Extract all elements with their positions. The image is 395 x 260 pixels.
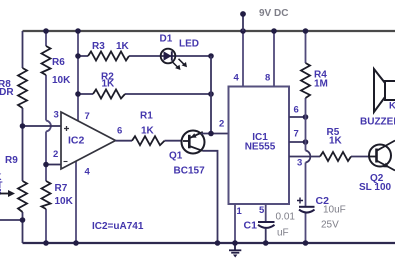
svg-text:3: 3 [0,187,2,197]
node top bus R6 [43,28,49,34]
wire op-amp pin 4 down [75,161,77,243]
svg-text:R6: R6 [52,57,65,68]
node bottom bus pin1/ground [232,240,238,246]
svg-text:BC157: BC157 [174,166,206,177]
buzzer speaker [374,69,385,112]
node pin3 input junction [20,123,26,129]
svg-text:LDR: LDR [0,87,14,98]
wire pin 6 stub [289,116,306,118]
wire feedback column x=211 [210,56,212,134]
wire hop over pin3 row [306,151,311,163]
transistor Q1 BC157 [182,131,205,154]
svg-text:2: 2 [53,149,58,160]
node Q1/pin2 junction [208,131,214,137]
resistor R3 [88,52,129,61]
wire R3 row [78,55,211,57]
svg-text:R7: R7 [55,183,68,194]
wire pin 7 stub [289,141,306,143]
resistor R9 preset [18,181,27,212]
svg-text:R3: R3 [92,41,105,52]
node bottom bus R7 [43,240,49,246]
wire pin2 input from R6/R7 junction [46,164,61,166]
wire V+ column to op-amp pin 7 and R3/R2 [77,31,79,121]
wire Q1 collector down [203,151,218,243]
wire pin3 input from R8/R9 junction [23,125,62,127]
svg-text:4: 4 [234,73,240,84]
transistor Q2 SL100 [369,145,391,167]
svg-text:4: 4 [85,167,91,178]
svg-text:10K: 10K [52,75,71,86]
wire pin 8 to bus [273,31,275,87]
svg-text:1: 1 [237,206,243,217]
ground [234,243,236,250]
node bus pin8 [271,28,277,34]
op-amp U IC2 [61,112,116,169]
LED light arrows [172,59,186,69]
wire R6/R7 column [45,31,47,243]
node R2 right [208,91,214,97]
IC U1 NE555 [229,87,290,205]
svg-text:D1: D1 [160,34,173,45]
resistor R8 [18,68,27,108]
svg-text:IC2: IC2 [68,135,85,147]
node bottom bus C2 [303,240,309,246]
svg-text:7: 7 [294,129,299,140]
node bus pin4 [240,28,246,34]
svg-text:1K: 1K [116,41,130,52]
svg-text:BUZZER: BUZZER [360,117,395,128]
resistor R2 [93,90,125,99]
resistor R1 [132,136,165,145]
wire bottom ground bus [23,242,395,244]
svg-text:6: 6 [294,105,299,116]
svg-text:1M: 1M [314,79,328,90]
wire pin 4 to bus [242,31,244,87]
node bottom bus C1 [263,240,269,246]
wire pin 3 output row [289,156,369,158]
svg-text:LED: LED [179,39,199,50]
diode D1 LED [161,49,176,64]
svg-text:0.01: 0.01 [276,212,296,223]
svg-text:5: 5 [259,205,265,216]
wire R2 row [78,93,211,95]
svg-text:K: K [389,101,395,112]
preset arrow [0,193,10,195]
wire pin 1 down [234,204,236,243]
capacitor C1 [258,221,275,223]
wire Q1 emitter to pin2 node [201,133,229,135]
resistor R4 column [305,31,307,243]
svg-text:SL 100: SL 100 [359,182,391,193]
svg-text:uF: uF [277,228,289,239]
resistor R5 [320,152,351,161]
svg-text:IC2=uA741: IC2=uA741 [92,221,144,232]
svg-text:7: 7 [85,111,90,122]
capacitor C2 [299,206,315,208]
wire R9 wiper lead to left edge [0,219,23,221]
svg-text:1K: 1K [102,79,116,90]
svg-text:Q1: Q1 [169,151,183,162]
svg-text:10K: 10K [55,196,74,207]
wire R1 row from op-amp output [116,140,184,142]
wire pin 5 down to C1 [265,204,267,222]
9V supply stub [242,14,244,31]
resistor R7 [42,181,51,209]
svg-text:3: 3 [297,158,302,169]
wire hop over pin3 input [46,121,51,132]
svg-text:9V DC: 9V DC [259,8,288,19]
svg-text:1K: 1K [141,126,155,137]
svg-text:3: 3 [54,110,59,121]
svg-text:R9: R9 [5,155,18,166]
svg-text:2: 2 [219,119,224,130]
node top bus V+ column [75,28,81,34]
node bus R4 [303,28,309,34]
svg-text:25V: 25V [321,220,339,231]
svg-text:6: 6 [117,126,122,137]
svg-text:NE555: NE555 [245,142,276,153]
svg-text:C1: C1 [244,220,258,232]
svg-text:8: 8 [265,73,270,84]
node R2 left [75,91,81,97]
node R9 bottom junction [20,217,26,223]
node LED row right [208,53,214,59]
svg-text:R1: R1 [140,111,153,122]
node pin2 input junction [43,162,49,168]
wire top supply bus [23,30,395,32]
svg-text:1K: 1K [329,136,343,147]
node bottom bus pin4 [73,240,79,246]
node bottom bus Q1 collector [215,240,221,246]
node R3 left [75,53,81,59]
resistor R4 [301,63,310,98]
svg-text:10uF: 10uF [323,205,346,216]
wire left column (R8/R9 branch) [22,31,24,243]
resistor R6 [42,46,51,75]
